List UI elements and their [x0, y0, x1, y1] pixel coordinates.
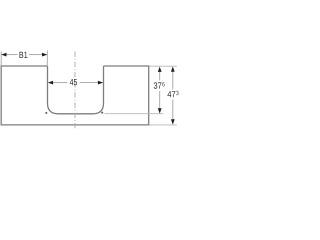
dimension 47.3: line upper segment [172, 71, 174, 89]
dimension 47.3: extension line top [150, 65, 177, 67]
dimension 45: line left segment [53, 82, 67, 84]
dimension 37.6: down arrow [158, 108, 162, 113]
dimension 47.3: down arrow [171, 119, 175, 124]
dimension 45: label [70, 79, 77, 85]
node: arc tangent dot right [101, 112, 103, 114]
dimension 45: right arrow [98, 81, 103, 85]
dimension B1: left arrow [1, 53, 6, 57]
dimension B1: line left segment [6, 54, 18, 56]
node: arc tangent dot left [45, 112, 47, 114]
cutout walls and rounded bottom [48, 66, 104, 114]
dimension 45: left arrow [48, 81, 53, 85]
dimension 47.3: extension line bottom [150, 124, 177, 126]
vertical centerline (dash-dot) [74, 52, 76, 129]
dimension 37.6: line upper segment [159, 72, 161, 81]
dimension B1: label [19, 52, 27, 58]
dimension 37.6: up arrow [158, 67, 162, 72]
dimension 37.6: label [154, 82, 162, 88]
dimension B1: line right segment [29, 54, 43, 56]
dimension B1: extension line right [46, 51, 48, 66]
dimension 47.3: line lower segment [172, 100, 174, 121]
dimension 45: line right segment [80, 82, 98, 84]
dimension B1: extension line left [0, 52, 2, 66]
dimension 47.3: up arrow [171, 67, 175, 72]
dimension 47.3: label [167, 91, 175, 97]
dimension 37.6: line lower segment [159, 91, 161, 109]
dimension B1: right arrow [42, 53, 47, 57]
countertop outline with U-shaped cutout [1, 66, 149, 125]
dimension 37.6: extension line at cutout bottom [105, 113, 164, 115]
